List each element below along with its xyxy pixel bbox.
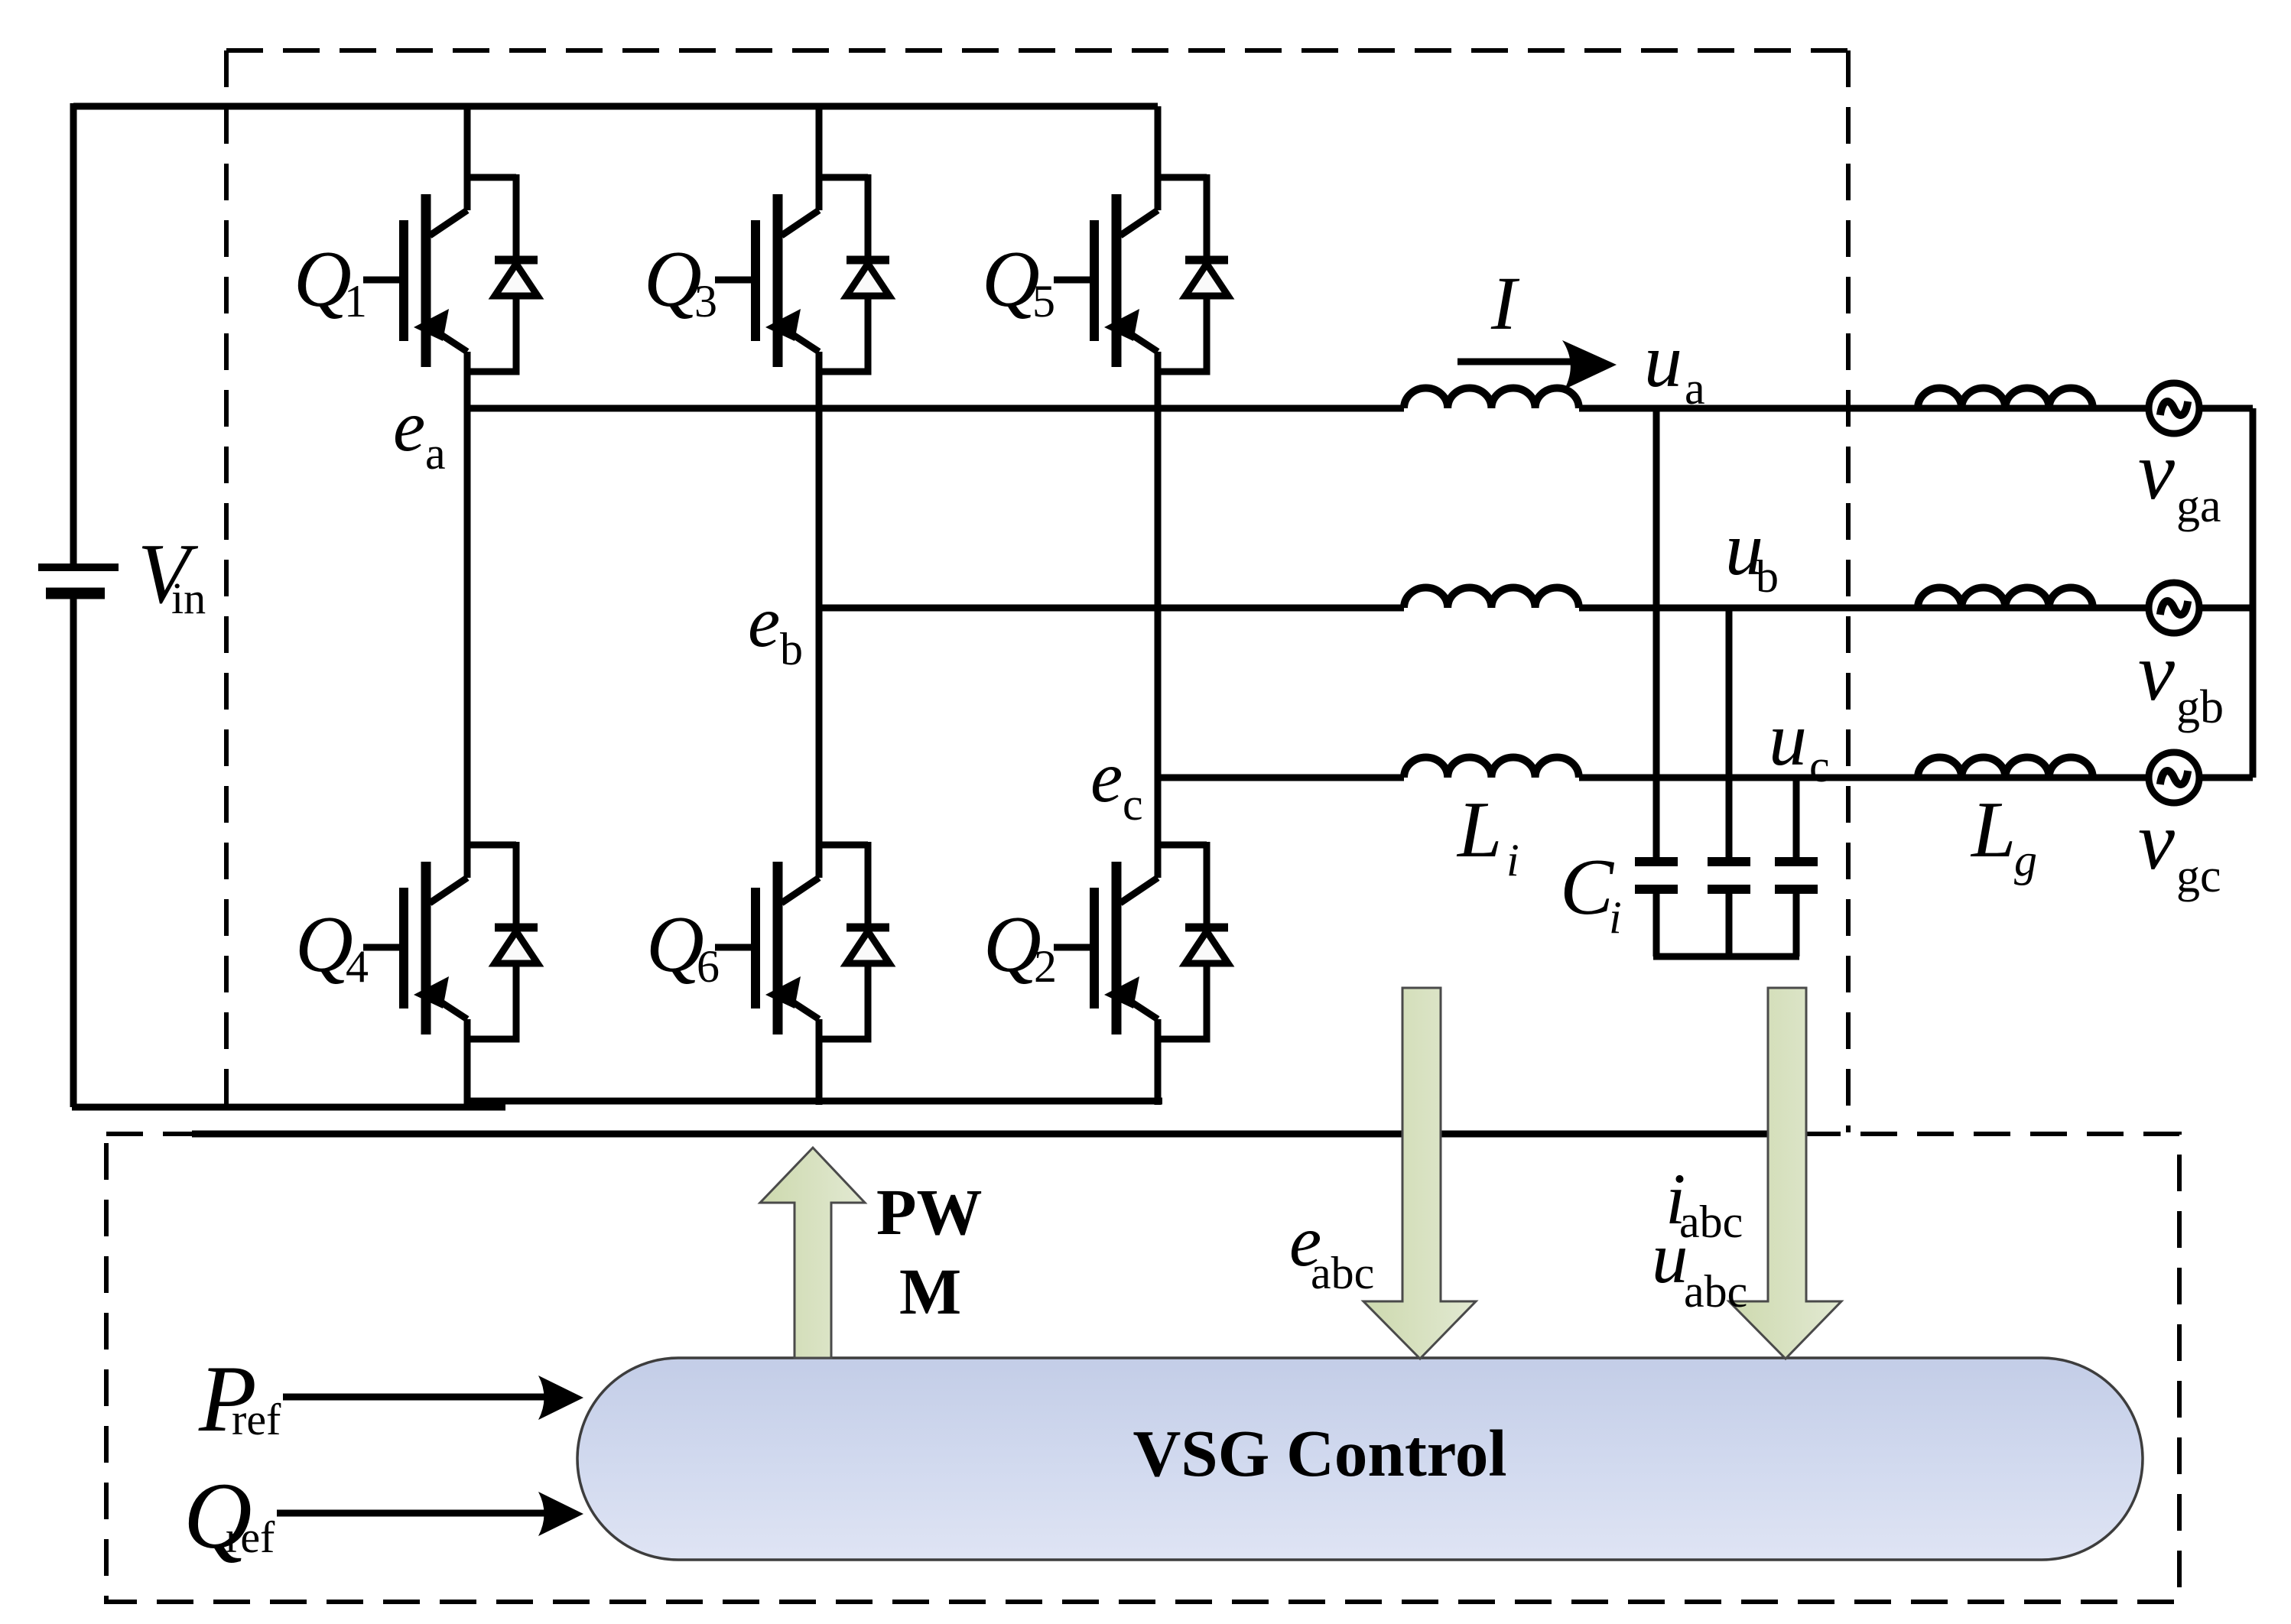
block arrow PWM (up) (760, 1148, 865, 1358)
wire: phase leg c (x=1514) (1155, 106, 1162, 1105)
svg-text:Q: Q (983, 899, 1042, 989)
svg-text:gb: gb (2176, 681, 2224, 733)
node ub label (1725, 506, 1779, 602)
svg-text:c: c (1123, 779, 1143, 830)
svg-text:v: v (2138, 426, 2175, 517)
wire: top DC rail (73, 103, 1158, 110)
label Q5 (982, 234, 1055, 326)
label iabc (1665, 1158, 1743, 1247)
AC source vga (2149, 383, 2199, 434)
label Lg (1970, 784, 2037, 885)
inductor Li phase c (1404, 758, 1579, 778)
label Q6 (646, 899, 720, 992)
svg-text:L: L (1970, 784, 2016, 874)
label Ci (1560, 842, 1622, 943)
svg-text:ref: ref (226, 1512, 275, 1562)
wire: left DC return (Vin negative) (70, 593, 77, 1107)
svg-text:abc: abc (1684, 1266, 1747, 1317)
svg-text:b: b (780, 624, 803, 674)
current arrow I (1457, 340, 1617, 389)
svg-text:u: u (1644, 318, 1682, 403)
svg-text:Q: Q (644, 234, 702, 323)
svg-text:6: 6 (697, 941, 720, 992)
svg-text:L: L (1456, 784, 1502, 874)
inductor Li phase a (1404, 388, 1579, 409)
svg-text:abc: abc (1679, 1197, 1743, 1247)
svg-text:Q: Q (646, 899, 704, 989)
inductor Li phase b (1404, 588, 1579, 609)
wire: phase c line (1158, 775, 2253, 781)
capacitor Ci phase b (1708, 862, 1750, 889)
wire: bottom DC rail (left segment) (72, 1104, 505, 1111)
wire: capacitor neutral stubs (1656, 889, 1796, 957)
label PWM (876, 1175, 983, 1328)
wire: measurement feed line (192, 1131, 1785, 1138)
svg-text:Q: Q (982, 234, 1040, 323)
wire: uc capacitor drop (1793, 778, 1800, 857)
svg-text:C: C (1560, 842, 1615, 931)
svg-text:v: v (2138, 796, 2175, 887)
diode of Q5 (1158, 174, 1228, 372)
diode of Q3 (819, 174, 889, 372)
inductor Lg phase a (1918, 388, 2093, 409)
wire: bottom DC rail (right segment) (466, 1098, 1162, 1105)
transistor Q2 (1054, 862, 1158, 1034)
wire: capacitor neutral bus (1653, 953, 1799, 960)
label Qref (184, 1463, 275, 1568)
AC source vgc (2149, 752, 2199, 803)
svg-text:c: c (1809, 741, 1830, 791)
svg-text:b: b (1756, 551, 1779, 602)
node ea label (393, 385, 446, 479)
label Q3 (644, 234, 717, 326)
svg-text:a: a (1685, 363, 1705, 414)
wire: ua capacitor drop (1653, 408, 1660, 857)
dashed box: inverter stage (top) (226, 50, 1848, 1132)
label Q1 (294, 234, 367, 326)
svg-text:VSG Control: VSG Control (1133, 1416, 1506, 1490)
diode of Q2 (1158, 842, 1228, 1039)
svg-text:1: 1 (344, 276, 367, 326)
block arrow iabc/uabc (down) (1729, 988, 1841, 1359)
dashed box: control stage (bottom) (106, 1134, 2179, 1602)
diode of Q6 (819, 842, 889, 1039)
capacitor Ci phase c (1775, 862, 1818, 889)
label uabc (1652, 1217, 1747, 1317)
arrow Pref (283, 1376, 583, 1420)
svg-text:i: i (1506, 835, 1519, 885)
svg-text:gc: gc (2176, 850, 2221, 902)
svg-text:M: M (899, 1255, 961, 1328)
svg-text:e: e (1090, 736, 1123, 817)
svg-text:e: e (393, 385, 425, 466)
AC source vgb (2149, 583, 2199, 633)
diode of Q4 (467, 842, 538, 1039)
label eabc (1289, 1200, 1374, 1298)
wire: phase leg a (x=611) (464, 106, 471, 1105)
svg-text:ref: ref (232, 1395, 281, 1444)
inductor Lg phase b (1918, 588, 2093, 609)
inductor Lg phase c (1918, 758, 2093, 778)
svg-text:g: g (2014, 835, 2037, 885)
node ec label (1090, 736, 1143, 830)
svg-text:5: 5 (1032, 276, 1055, 326)
svg-text:Q: Q (294, 234, 352, 323)
svg-text:e: e (748, 581, 780, 662)
wire: phase b line (819, 605, 2253, 612)
arrow Qref (277, 1492, 583, 1536)
capacitor Ci phase a (1635, 862, 1678, 889)
svg-text:Q: Q (295, 899, 353, 989)
svg-text:3: 3 (694, 276, 717, 326)
node ua label (1644, 318, 1705, 414)
node uc label (1769, 697, 1830, 791)
transistor Q4 (363, 862, 467, 1034)
label vga (2138, 426, 2221, 532)
VSG Control block (577, 1358, 2143, 1560)
wire: phase leg b (x=1071) (816, 106, 823, 1105)
svg-text:2: 2 (1034, 941, 1057, 992)
transistor Q5 (1054, 194, 1158, 367)
battery Vin (38, 564, 119, 571)
svg-text:u: u (1769, 697, 1807, 781)
svg-text:a: a (425, 428, 446, 479)
diode of Q1 (467, 174, 538, 372)
svg-text:I: I (1490, 261, 1520, 346)
label Pref (198, 1346, 281, 1451)
label Q4 (295, 899, 369, 992)
svg-text:PW: PW (876, 1175, 983, 1249)
wire: grid right bus (2250, 408, 2257, 778)
label vgb (2138, 627, 2224, 733)
svg-text:i: i (1609, 892, 1622, 943)
wire: phase a line (467, 405, 2253, 412)
svg-text:ga: ga (2176, 480, 2221, 532)
wire: left DC feed (Vin positive) (70, 103, 77, 567)
label vgc (2138, 796, 2221, 902)
transistor Q6 (715, 862, 819, 1034)
label Q2 (983, 899, 1057, 992)
block arrow eabc (down) (1363, 988, 1476, 1359)
svg-text:abc: abc (1311, 1248, 1374, 1298)
wire: ub capacitor drop (1726, 608, 1733, 857)
svg-text:u: u (1652, 1217, 1688, 1298)
svg-text:in: in (171, 573, 206, 623)
svg-text:4: 4 (346, 941, 369, 992)
svg-text:v: v (2138, 627, 2175, 718)
label Li (1456, 784, 1519, 885)
transistor Q3 (715, 194, 819, 367)
transistor Q1 (363, 194, 467, 367)
node eb label (748, 581, 803, 674)
